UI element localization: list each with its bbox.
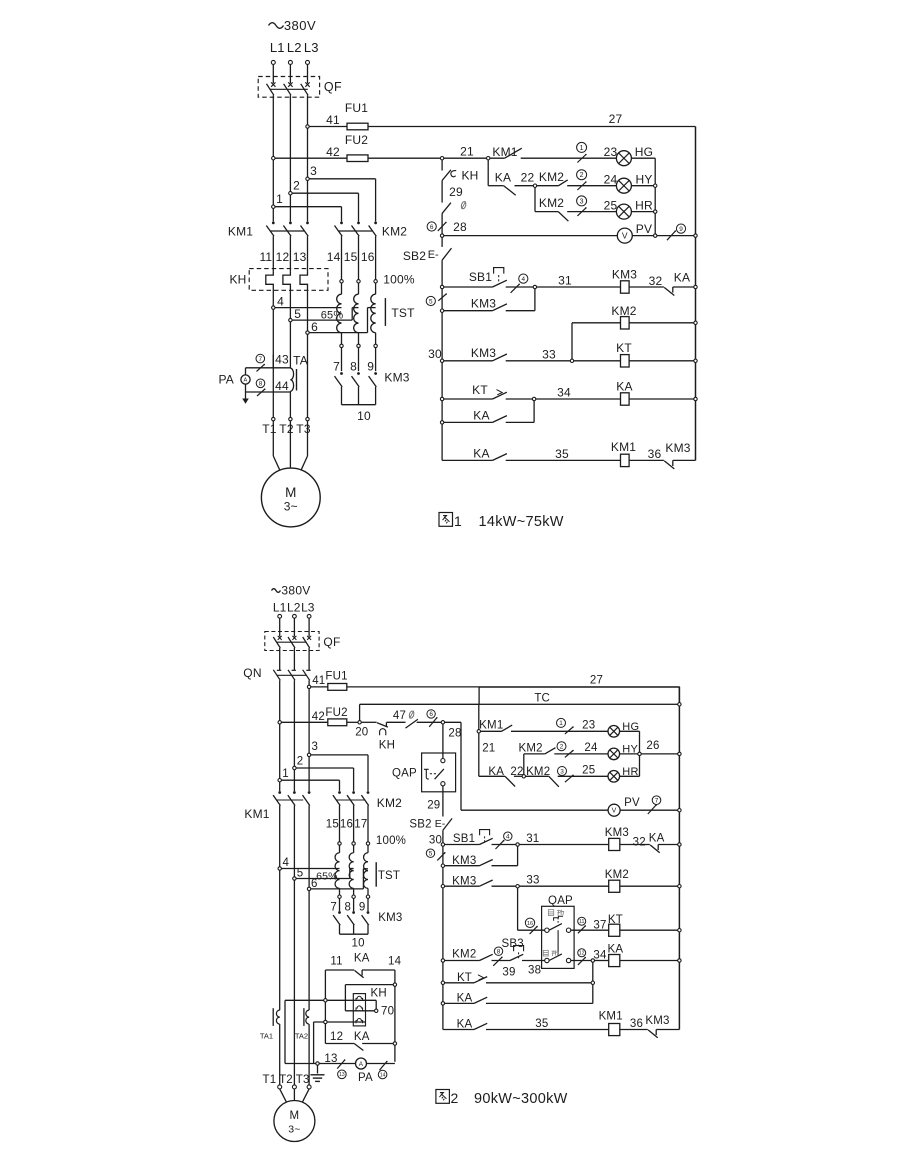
svg-text:41: 41 [312,675,325,687]
svg-text:5: 5 [429,298,433,305]
svg-text:16: 16 [361,250,375,264]
svg-text:KM1: KM1 [479,720,503,732]
svg-text:32: 32 [649,274,663,288]
svg-text:T2: T2 [279,422,294,436]
svg-text:3~: 3~ [284,500,298,514]
svg-text:11: 11 [259,250,272,264]
svg-text:QF: QF [324,80,342,94]
svg-text:E-: E- [428,249,439,261]
svg-text:29: 29 [449,185,463,199]
svg-text:KM2: KM2 [518,742,542,754]
svg-text:L3: L3 [301,601,315,615]
svg-text:KA: KA [473,409,489,423]
svg-text:KM2: KM2 [605,869,629,881]
svg-text:HR: HR [622,766,638,778]
svg-text:L2: L2 [287,40,302,55]
svg-text:A: A [244,378,248,384]
svg-text:13: 13 [339,1072,345,1078]
svg-text:25: 25 [604,199,618,213]
svg-text:KH: KH [461,169,478,183]
svg-text:KA: KA [495,171,511,185]
svg-text:30: 30 [429,835,442,847]
svg-text:3: 3 [311,741,318,753]
svg-text:KM2: KM2 [377,796,402,810]
svg-text:2: 2 [580,172,584,179]
svg-text:3: 3 [580,198,584,205]
svg-text:23: 23 [582,720,595,732]
svg-text:PV: PV [636,222,652,236]
svg-text:27: 27 [590,675,603,687]
svg-text:SB1: SB1 [453,833,475,845]
svg-text:2: 2 [293,179,300,193]
svg-text:QF: QF [323,635,340,649]
svg-text:5: 5 [429,851,433,858]
svg-text:7: 7 [330,902,337,914]
svg-text:PA: PA [358,1072,373,1084]
svg-text:KA: KA [608,944,624,956]
svg-text:TA1: TA1 [260,1031,273,1040]
svg-text:9: 9 [367,360,374,374]
svg-text:KH: KH [229,273,246,287]
svg-text:31: 31 [558,274,572,288]
svg-text:1: 1 [559,720,563,727]
svg-text:T1: T1 [262,422,277,436]
svg-text:SB1: SB1 [469,270,492,284]
svg-text:4: 4 [282,857,289,869]
svg-text:8: 8 [497,949,501,956]
svg-text:14: 14 [327,250,341,264]
svg-text:11: 11 [579,919,584,925]
svg-text:QAP: QAP [392,768,417,780]
svg-text:KM2: KM2 [539,196,564,210]
svg-text:M: M [285,485,296,500]
svg-text:FU2: FU2 [325,707,347,719]
svg-text:KM3: KM3 [471,297,496,311]
svg-text:1: 1 [454,513,462,529]
svg-text:KM2: KM2 [611,304,636,318]
svg-text:TA2: TA2 [295,1031,308,1040]
svg-text:HG: HG [622,721,639,733]
svg-text:30: 30 [428,347,442,361]
svg-text:65%: 65% [316,870,338,882]
svg-text:36: 36 [630,1018,643,1030]
svg-text:28: 28 [453,220,467,234]
svg-text:HR: HR [635,199,653,213]
svg-text:HG: HG [635,145,653,159]
svg-text:2: 2 [297,756,304,768]
svg-text:4: 4 [506,834,510,841]
svg-text:KA: KA [354,953,370,965]
svg-text:FU1: FU1 [325,671,347,683]
svg-text:9: 9 [359,902,366,914]
svg-text:12: 12 [276,250,290,264]
svg-text:13: 13 [324,1053,337,1065]
svg-text:5: 5 [294,307,301,321]
svg-text:37: 37 [593,919,606,931]
svg-text:PV: PV [624,797,640,809]
svg-text:33: 33 [526,875,539,887]
svg-text:22: 22 [521,171,535,185]
svg-text:41: 41 [326,113,340,127]
svg-text:L2: L2 [287,601,301,615]
svg-text:4: 4 [522,276,526,283]
svg-text:KA: KA [457,992,473,1004]
svg-text:8: 8 [350,360,357,374]
svg-text:21: 21 [482,742,495,754]
svg-text:KM1: KM1 [228,225,253,239]
svg-text:SB3: SB3 [502,938,524,950]
svg-text:7: 7 [655,798,659,805]
svg-text:25: 25 [582,765,595,777]
svg-text:KT: KT [472,383,488,397]
svg-text:34: 34 [557,386,571,400]
svg-text:33: 33 [542,348,556,362]
svg-text:KM3: KM3 [452,875,476,887]
svg-text:PA: PA [218,373,234,387]
svg-text:QN: QN [243,666,262,680]
svg-text:31: 31 [526,833,539,845]
svg-text:1: 1 [276,192,283,206]
svg-text:L1: L1 [273,601,287,615]
svg-text:KM2: KM2 [382,225,407,239]
svg-text:16: 16 [527,921,533,927]
svg-text:TA: TA [293,354,308,368]
svg-text:1: 1 [580,145,584,152]
svg-text:10: 10 [351,937,364,949]
svg-text:23: 23 [604,145,618,159]
svg-text:V: V [622,231,628,241]
svg-text:15: 15 [326,819,339,831]
svg-text:26: 26 [646,740,659,752]
svg-text:14: 14 [388,956,402,968]
svg-text:15: 15 [344,250,358,264]
svg-text:11: 11 [330,955,342,967]
svg-text:KA: KA [354,1031,370,1043]
svg-text:43: 43 [275,353,289,367]
svg-text:KM1: KM1 [244,807,269,821]
svg-text:8: 8 [259,381,263,388]
svg-text:L3: L3 [304,40,319,55]
svg-text:38: 38 [528,964,541,976]
svg-text:KM1: KM1 [611,440,636,454]
svg-text:6: 6 [311,320,318,334]
svg-text:29: 29 [427,800,440,812]
svg-text:TST: TST [378,870,400,882]
svg-text:KA: KA [473,447,489,461]
svg-text:32: 32 [633,837,646,849]
svg-text:35: 35 [555,447,569,461]
svg-text:20: 20 [355,726,368,738]
svg-text:KA: KA [674,271,690,285]
svg-text:T2: T2 [279,1074,293,1086]
svg-text:TC: TC [534,693,550,705]
svg-text:1: 1 [282,768,289,780]
svg-text:T1: T1 [262,1074,276,1086]
svg-text:28: 28 [448,727,461,739]
svg-text:27: 27 [609,112,623,126]
svg-text:KM2: KM2 [452,949,476,961]
svg-text:KM3: KM3 [645,1015,669,1027]
svg-text:14kW~75kW: 14kW~75kW [479,514,564,530]
svg-text:6: 6 [430,224,434,231]
svg-text:16: 16 [340,819,353,831]
svg-text:T3: T3 [296,422,311,436]
svg-text:KM2: KM2 [539,170,564,184]
svg-text:35: 35 [535,1018,548,1030]
svg-text:KT: KT [616,341,632,355]
svg-text:17: 17 [354,819,367,831]
svg-text:2: 2 [560,744,564,751]
svg-text:KM3: KM3 [384,371,409,385]
svg-text:HY: HY [622,743,638,755]
svg-text:6: 6 [429,711,433,718]
svg-text:12: 12 [579,951,585,957]
svg-text:KM1: KM1 [492,145,517,159]
svg-text:KT: KT [457,972,472,984]
svg-text:HY: HY [635,173,652,187]
svg-text:KM3: KM3 [605,827,629,839]
svg-text:9: 9 [679,226,683,233]
svg-text:100%: 100% [376,835,406,847]
svg-text:14: 14 [380,1072,386,1078]
svg-text:10: 10 [357,409,371,423]
svg-text:12: 12 [330,1031,343,1043]
svg-text:47: 47 [393,710,406,722]
svg-text:70: 70 [381,1005,394,1017]
svg-text:2: 2 [451,1090,459,1106]
svg-text:24: 24 [584,742,598,754]
svg-text:KM3: KM3 [471,346,496,360]
svg-text:SB2: SB2 [409,819,431,831]
svg-text:100%: 100% [383,272,415,286]
svg-text:KA: KA [616,380,632,394]
svg-text:FU1: FU1 [345,101,368,115]
svg-text:4: 4 [277,294,284,308]
svg-text:KM1: KM1 [599,1010,623,1022]
svg-text:TST: TST [391,306,415,320]
svg-text:KM3: KM3 [665,441,690,455]
svg-text:QAP: QAP [548,895,573,907]
svg-text:34: 34 [593,949,607,961]
svg-text:3~: 3~ [288,1124,300,1136]
svg-text:KM3: KM3 [612,268,637,282]
svg-text:KH: KH [371,987,387,999]
svg-text:FU2: FU2 [345,133,368,147]
svg-text:380V: 380V [284,18,316,33]
svg-text:KA: KA [488,766,504,778]
svg-text:90kW~300kW: 90kW~300kW [474,1091,568,1107]
svg-text:380V: 380V [281,584,310,598]
svg-text:M: M [290,1110,300,1122]
svg-text:L1: L1 [270,40,285,55]
svg-text:7: 7 [333,360,340,374]
svg-text:KH: KH [379,740,395,752]
svg-text:21: 21 [460,145,474,159]
svg-text:8: 8 [344,902,351,914]
svg-text:42: 42 [326,145,340,159]
svg-text:39: 39 [502,966,515,978]
svg-text:KA: KA [457,1018,473,1030]
svg-text:7: 7 [259,356,263,363]
svg-text:KA: KA [649,832,665,844]
svg-text:13: 13 [293,250,307,264]
svg-text:V: V [612,808,617,815]
svg-text:A: A [359,1061,364,1068]
svg-text:42: 42 [312,711,325,723]
svg-text:KM3: KM3 [452,855,476,867]
svg-text:36: 36 [648,447,662,461]
svg-text:24: 24 [604,173,618,187]
svg-text:3: 3 [560,768,564,775]
svg-text:KM3: KM3 [378,912,402,924]
svg-text:T3: T3 [296,1074,310,1086]
svg-text:3: 3 [310,164,317,178]
svg-text:44: 44 [275,379,289,393]
svg-text:SB2: SB2 [403,249,426,263]
